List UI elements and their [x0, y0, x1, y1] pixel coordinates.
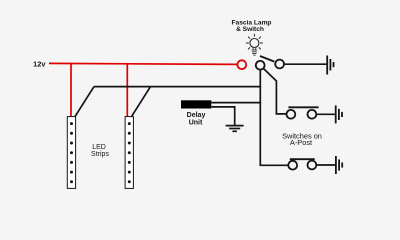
svg-text:12v: 12v: [33, 59, 46, 68]
wire branch to middle switch: [264, 69, 287, 114]
switch SW3 (bottom) terminal A: [288, 161, 297, 170]
ground (middle right): [336, 105, 342, 123]
switch SW1 pivot terminal: [256, 61, 265, 70]
wire SW1 pivot to lower switches (vertical bus): [259, 70, 261, 165]
terminal (red) fascia lamp feed: [237, 60, 246, 69]
label Fascia Lamp & Switch: [232, 20, 272, 33]
label Delay Unit: [187, 112, 206, 126]
switch SW1 output terminal: [275, 60, 284, 69]
switch SW2 terminal B: [308, 110, 317, 119]
fascia lamp (bulb symbol): [246, 34, 263, 55]
switch SW2 (middle) terminal A: [287, 110, 296, 119]
switch SW3 terminal B: [308, 161, 317, 170]
wire drop to LED strip 2 (red): [126, 64, 128, 117]
svg-text:LED: LED: [92, 144, 106, 151]
ground (bottom right): [336, 156, 342, 174]
wire LED strip 2 return (diagonal): [132, 87, 151, 117]
wire delay unit ground lead: [211, 107, 234, 125]
delay unit: [181, 100, 211, 108]
switch SW1 blade: [260, 56, 274, 62]
LED strip 1: [67, 117, 75, 189]
svg-text:Strips: Strips: [91, 151, 109, 158]
ground (top right): [327, 56, 333, 75]
label Switches on A-Post: [282, 131, 322, 147]
switch SW2 blade (closed): [288, 106, 318, 108]
wire return bus (horizontal): [94, 86, 261, 88]
wire LED strip 1 return (diagonal): [75, 87, 94, 117]
svg-text:Unit: Unit: [189, 119, 203, 126]
switch SW3 blade (closed): [290, 158, 315, 160]
wire SW3 to ground: [316, 164, 335, 166]
ground (delay unit): [226, 126, 244, 132]
svg-text:A-Post: A-Post: [290, 138, 312, 147]
wire SW1 to ground: [284, 63, 326, 65]
svg-text:Delay: Delay: [187, 112, 206, 119]
wire drop to LED strip 1 (red): [70, 64, 72, 117]
wire to bottom switch: [260, 164, 288, 166]
label LED Strips: [91, 144, 109, 158]
LED strip 2: [125, 117, 133, 189]
svg-text:& Switch: & Switch: [236, 26, 264, 33]
wire SW2 to ground: [317, 113, 335, 115]
wire 12v supply rail (red): [49, 63, 237, 64]
wire delay unit output: [211, 102, 261, 104]
